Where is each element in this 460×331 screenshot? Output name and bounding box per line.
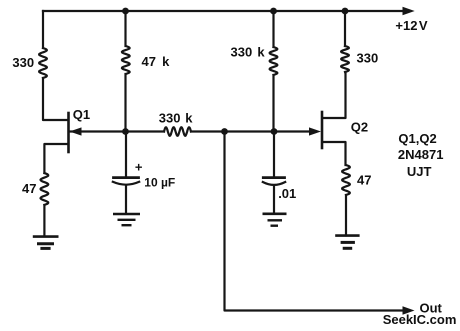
node junction dot rail/330 right — [342, 8, 349, 15]
wire 330 to Q1 base2 — [43, 78, 68, 120]
wire C2 to ground — [273, 186, 275, 214]
svg-text:330 k: 330 k — [231, 44, 266, 59]
svg-text:UJT: UJT — [407, 164, 432, 179]
transistor Q1 bar — [67, 113, 70, 152]
svg-text:330: 330 — [12, 55, 34, 70]
resistor R7 47 (right) — [342, 165, 350, 195]
svg-text:.01: .01 — [278, 186, 296, 201]
resistor R3 330 k (horizontal) — [164, 127, 191, 136]
wire Q1 base1 lead — [44, 144, 67, 173]
wire 47 to ground — [43, 205, 45, 236]
wire node to capacitor C2 — [273, 132, 275, 178]
capacitor C2 .01 bottom plate — [263, 182, 285, 185]
svg-text:47: 47 — [22, 181, 36, 196]
node junction dot rail/47k — [122, 8, 129, 15]
svg-text:2N4871: 2N4871 — [398, 147, 444, 162]
capacitor C1 10uF top plate — [114, 176, 139, 179]
wire Q2 base1 lead — [323, 142, 346, 165]
resistor R1 330 (left) — [39, 48, 47, 78]
transistor Q2 bar — [321, 112, 324, 148]
node junction dot Q1 emitter — [122, 128, 129, 135]
wire left branch from rail to 330 — [42, 11, 44, 48]
wire right 330 branch from rail — [344, 11, 346, 46]
svg-text:330 k: 330 k — [159, 111, 193, 126]
ground GND2 (under C1) — [113, 214, 140, 225]
node junction dot Q2 emitter — [271, 128, 278, 135]
svg-text:47 k: 47 k — [142, 54, 171, 69]
wire top rail +12V — [43, 10, 404, 12]
svg-text:+: + — [135, 160, 143, 175]
wire 330k vertical branch from rail — [272, 11, 274, 47]
wire 47k to emitter node — [124, 74, 126, 132]
arrowhead +12V rail — [403, 7, 415, 15]
svg-text:SeekIC.com: SeekIC.com — [383, 312, 457, 327]
capacitor C1 10uF bottom plate — [113, 182, 139, 185]
wire C1 to ground — [125, 186, 127, 214]
svg-text:+12 V: +12 V — [395, 18, 427, 33]
arrowhead output — [403, 306, 415, 314]
wire 47 to ground — [345, 195, 347, 236]
ground GND1 (left 47) — [33, 237, 59, 249]
svg-text:Q1,Q2: Q1,Q2 — [398, 131, 436, 146]
resistor R6 330 (right) — [341, 46, 349, 72]
wire output tap — [225, 132, 405, 311]
ground GND4 (right 47) — [335, 236, 359, 249]
svg-text:10 µF: 10 µF — [144, 176, 175, 190]
resistor R2 47 (left) — [41, 173, 49, 205]
capacitor C2 .01 top plate — [263, 176, 284, 179]
wire Q1 emitter line — [70, 130, 164, 132]
wire 330 to Q2 base2 — [323, 72, 346, 118]
wire 330k to node — [272, 75, 274, 132]
wire 330k to Q2 emitter — [191, 130, 310, 132]
svg-text:330: 330 — [357, 50, 379, 65]
node junction dot rail/330k — [270, 8, 277, 15]
node junction dot output tap — [221, 128, 228, 135]
resistor R5 330 k (vertical) — [270, 47, 278, 75]
svg-text:Q2: Q2 — [351, 120, 368, 135]
arrowhead Q1 emitter — [70, 127, 82, 135]
ground GND3 (under C2) — [263, 214, 287, 226]
wire node to capacitor C1 — [125, 132, 127, 178]
wire 47k branch from rail — [124, 11, 126, 46]
resistor R4 47 k — [122, 46, 130, 74]
svg-text:Q1: Q1 — [73, 107, 90, 122]
arrowhead Q2 emitter — [309, 127, 321, 135]
svg-text:47: 47 — [357, 173, 371, 188]
